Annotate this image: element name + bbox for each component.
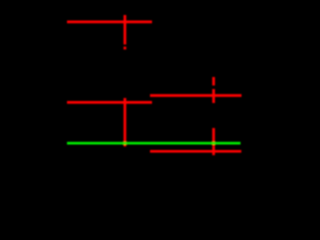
red horizontal segment B (middle right level) <box>150 94 242 97</box>
red vertical line V1 lower part <box>124 98 127 147</box>
red vertical dash V2 top <box>212 77 215 86</box>
red vertical dash below V1 upper <box>124 47 127 50</box>
red horizontal segment A (top left level) <box>67 21 152 24</box>
red horizontal segment C (middle left level) <box>67 101 152 104</box>
red vertical line V2 bottom <box>212 128 215 155</box>
green horizontal line E <box>67 142 241 145</box>
red horizontal segment D (bottom right level) <box>150 150 241 153</box>
red vertical dash V2 middle <box>212 89 215 103</box>
red vertical line V1 upper part <box>124 15 127 45</box>
